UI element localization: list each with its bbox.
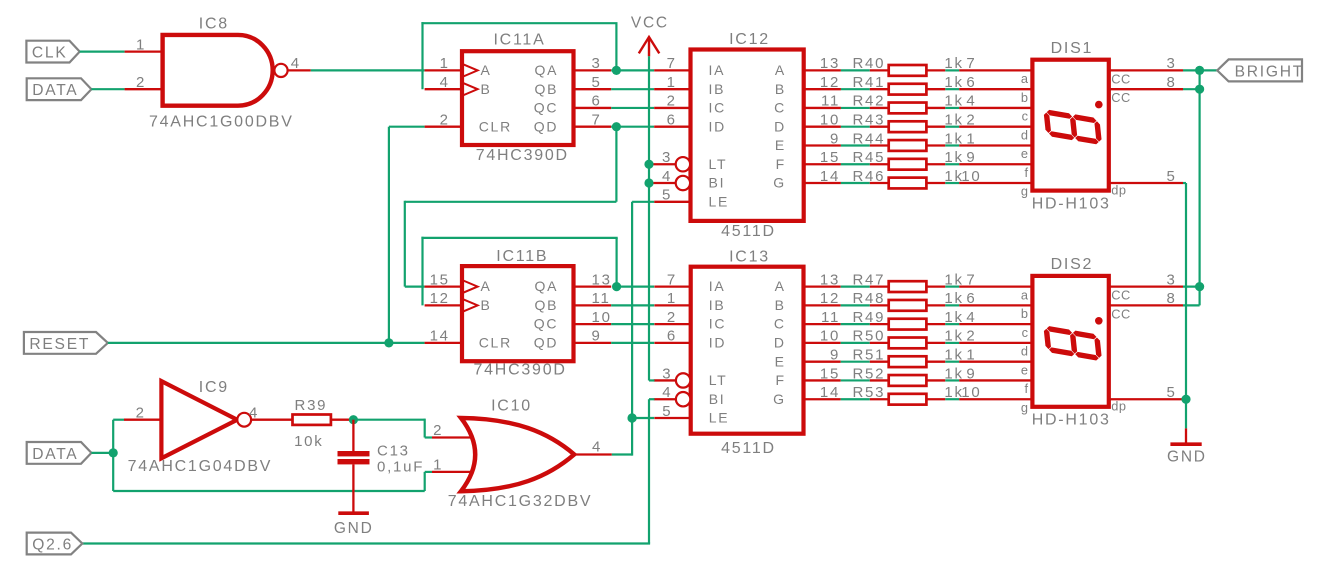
svg-text:1: 1 [966,346,976,363]
svg-text:B: B [775,81,786,97]
wire to display pin 2 [959,126,1032,128]
svg-text:f: f [1024,381,1028,396]
svg-text:7: 7 [966,55,976,72]
resistor R49 [889,319,927,330]
wire to display pin 6 [959,88,1032,90]
svg-text:2: 2 [966,328,976,345]
svg-text:5: 5 [1166,168,1176,185]
svg-text:13: 13 [820,271,840,288]
pin stub IC13 IB [654,304,690,306]
svg-text:9: 9 [830,130,840,147]
resistor R44 right pin [926,144,945,146]
wire R51 net in [841,361,870,363]
wire R42 net in [841,107,870,109]
capacitor C13 bottom lead [352,464,354,511]
svg-text:1: 1 [433,457,443,474]
ic IC11B box [462,266,574,361]
wire R48 net in [841,304,870,306]
pin stub IC11A pin 1 [425,69,462,71]
wire to display pin 9 [959,163,1032,165]
svg-text:2: 2 [440,112,450,129]
wire to display pin 10 [959,398,1032,400]
wire IC11B QD to IC13 ID [611,342,654,344]
svg-text:15: 15 [820,149,840,166]
svg-text:CLR: CLR [479,118,512,134]
svg-text:8: 8 [1166,74,1176,91]
wire R46 net out [945,182,959,184]
pin stub IC13 D [804,342,841,344]
svg-text:10k: 10k [294,433,323,450]
net flag DATA [27,78,92,100]
wire to display pin 10 [959,182,1032,184]
wire R39 to junction [349,419,353,421]
wire R48 net out [945,304,959,306]
svg-text:9: 9 [966,365,976,382]
svg-text:B: B [775,297,786,313]
resistor R50 right pin [926,342,945,344]
wire bend down to pin 2 [424,419,426,438]
resistor R40 left pin [870,69,889,71]
pin stub IC11B pin 12 [425,304,462,306]
wire DATA to junction [91,452,113,454]
wire QA to IC12 IA [611,69,654,71]
svg-text:b: b [1021,90,1029,105]
pin stub IC11B pin 15 [425,285,462,287]
pin stub IC8 pin 4 [288,69,311,71]
svg-text:a: a [1021,71,1029,86]
wire IC13 LT from VCC [649,379,655,381]
svg-text:QB: QB [535,81,559,97]
svg-text:dp: dp [1111,399,1126,414]
svg-text:10: 10 [820,112,840,129]
wire RESET vertical [388,127,390,343]
wire R50 net in [841,342,870,344]
svg-text:LT: LT [709,156,728,172]
svg-text:10: 10 [820,328,840,345]
wire dp vertical [1185,183,1187,428]
svg-text:4: 4 [440,74,450,91]
svg-text:74HC390D: 74HC390D [476,147,569,164]
svg-text:R39: R39 [294,397,327,414]
svg-text:d: d [1021,344,1029,359]
svg-text:RESET: RESET [29,336,90,353]
wire net DATA [91,88,124,90]
resistor R45 [889,159,927,170]
svg-text:A: A [775,278,786,294]
svg-text:e: e [1021,362,1029,377]
svg-text:7: 7 [667,271,677,288]
pin stub IC12 ID [654,126,690,128]
resistor R41 right pin [926,88,945,90]
pin stub IC13 IA [654,285,690,287]
svg-text:1: 1 [440,55,450,72]
pin stub IC13 A [804,285,841,287]
svg-text:C: C [774,316,786,332]
pin stub IC12 B [804,88,841,90]
resistor R47 right pin [926,285,945,287]
svg-text:2: 2 [667,93,677,110]
net flag CLK [26,41,79,63]
svg-text:B: B [481,81,492,97]
svg-text:ID: ID [709,118,727,134]
svg-text:f: f [1024,165,1028,180]
wire R45 net out [945,163,959,165]
svg-text:10: 10 [592,309,612,326]
pin stub IC10 pin 2 [432,436,472,438]
svg-text:HD-H103: HD-H103 [1032,412,1111,429]
clock wedge IC11A A [462,64,478,77]
svg-text:IC12: IC12 [729,31,770,48]
svg-text:CLK: CLK [32,45,68,62]
wire IC11B QA to IC13 IA [617,286,655,288]
svg-text:CC: CC [1111,90,1130,105]
ground symbol (C13) [338,511,369,515]
wire QD down to IC11B A [404,201,406,287]
svg-text:6: 6 [667,328,677,345]
svg-text:IC10: IC10 [491,398,532,415]
pin stub DIS2 CC 3 [1109,285,1183,287]
junction LE at IC13 [628,413,637,422]
resistor R53 right pin [926,398,945,400]
svg-text:7: 7 [966,271,976,288]
svg-text:5: 5 [592,74,602,91]
wire to display pin 7 [959,285,1032,287]
wire to display pin 2 [959,342,1032,344]
pin stub IC12 LE [654,201,690,203]
svg-text:GND: GND [334,520,374,537]
display DIS1 box [1032,60,1108,191]
resistor R48 left pin [870,304,889,306]
wire to display pin 4 [959,323,1032,325]
pin stub IC12 D [804,126,841,128]
svg-text:HD-H103: HD-H103 [1032,196,1111,213]
wire to display pin 1 [959,144,1032,146]
junction QD IC11A [612,122,621,131]
gnd stub (display) [1185,428,1187,443]
decimal point (DIS1) [1095,101,1103,109]
pin stub IC11A pin 2 [425,126,462,128]
decimal point (DIS2) [1095,317,1103,325]
svg-text:g: g [1021,400,1029,415]
wire to display pin 7 [959,69,1032,71]
resistor R43 [889,121,927,132]
resistor R51 right pin [926,361,945,363]
svg-text:A: A [481,62,492,78]
pin stub IC12 A [804,69,841,71]
svg-text:11: 11 [821,93,840,110]
wire into IC10 pin 1 [425,471,432,473]
pin stub DIS1 CC 3 [1109,69,1183,71]
svg-text:D: D [774,335,786,351]
svg-text:D: D [774,118,786,134]
svg-text:4: 4 [966,309,976,326]
wire IC11B QA feedback vertical left [421,237,423,306]
seven segment glyph (DIS1) [1043,109,1102,145]
wire IC8 out to IC11A A [311,69,425,71]
pin stub IC13 IC [654,323,690,325]
pin stub IC12 IA [654,69,690,71]
svg-text:4: 4 [249,404,259,421]
wire R49 net out [945,323,959,325]
resistor R43 right pin [926,126,945,128]
wire to display pin 6 [959,304,1032,306]
ic IC12 box [691,50,804,221]
resistor R53 left pin [870,398,889,400]
wire DIS2 dp [1183,398,1186,400]
pin stub IC11B QD [574,342,612,344]
wire DATA bottom horizontal [113,490,425,492]
pin stub IC12 IB [654,88,690,90]
wire R43 net out [945,126,959,128]
svg-text:IC8: IC8 [199,15,229,32]
junction dp at DIS2 [1181,395,1190,404]
svg-text:4511D: 4511D [721,440,776,457]
svg-text:2: 2 [667,309,677,326]
resistor R42 right pin [926,107,945,109]
pin stub IC10 pin 1 [432,471,472,473]
svg-text:ID: ID [709,335,727,351]
resistor R51 left pin [870,361,889,363]
pin stub DIS2 CC 8 [1109,304,1183,306]
svg-text:6: 6 [966,74,976,91]
svg-text:DIS2: DIS2 [1051,256,1094,273]
output bubble IC8 [274,64,287,77]
svg-text:74AHC1G04DBV: 74AHC1G04DBV [128,458,273,475]
resistor R47 [889,281,927,292]
pin stub IC11B QA [574,285,612,287]
pin stub IC11A QA [574,69,612,71]
svg-text:4511D: 4511D [721,223,776,240]
wire net RESET [108,342,425,344]
resistor R44 [889,140,927,151]
pin stub IC11A QD [574,126,612,128]
wire to display pin 1 [959,361,1032,363]
pin stub IC12 F [804,163,841,165]
svg-text:G: G [773,391,786,407]
wire IC11B QA feedback vertical right [615,238,617,287]
display DIS2 box [1032,276,1108,407]
pin stub IC12 E [804,144,841,146]
wire R52 net out [945,379,959,381]
inverter IC9 [161,381,237,458]
resistor R46 [889,178,927,189]
svg-text:QC: QC [534,316,559,332]
svg-text:6: 6 [592,93,602,110]
wire into IC10 pin 2 [425,436,432,438]
wire BRIGHT vertical [1198,70,1200,305]
svg-text:DATA: DATA [32,446,78,463]
svg-text:BI: BI [709,391,726,407]
wire DIS1 dp [1183,182,1186,184]
resistor R49 left pin [870,323,889,325]
svg-text:BRIGHT: BRIGHT [1235,63,1304,80]
pin stub IC12 LT [654,163,677,165]
pin stub IC13 C [804,323,841,325]
resistor R46 left pin [870,182,889,184]
svg-text:12: 12 [430,290,450,307]
wire LE vertical [631,202,633,456]
svg-text:8: 8 [1166,290,1176,307]
ground symbol (display) [1170,442,1201,446]
pin stub IC13 G [804,398,841,400]
resistor R47 left pin [870,285,889,287]
resistor R44 left pin [870,144,889,146]
pin stub IC8 pin 2 [125,88,162,90]
wire IC11B QC to IC13 IC [611,323,654,325]
wire R50 net out [945,342,959,344]
svg-text:e: e [1021,146,1029,161]
wire QB to IC12 IB [611,88,654,90]
pin stub DIS1 CC 8 [1109,88,1183,90]
pin stub IC11B QB [574,304,612,306]
clock wedge IC11B A [462,280,478,293]
resistor R41 [889,84,927,95]
pin stub IC12 C [804,107,841,109]
wire RESET to IC11A CLR [389,126,425,128]
wire R52 net in [841,379,870,381]
svg-text:IB: IB [709,81,726,97]
svg-text:9: 9 [966,149,976,166]
svg-text:BI: BI [709,175,726,191]
svg-text:5: 5 [1166,384,1176,401]
pin stub IC13 ID [654,342,690,344]
resistor R40 [889,65,927,76]
wire net Q2.6 [82,542,650,544]
junction VCC to IC12 BI [644,178,653,187]
svg-text:2: 2 [433,422,443,439]
wire DIS2 CC8 to BRIGHT vertical [1183,304,1200,306]
svg-text:IC11B: IC11B [496,248,548,265]
pin stub IC13 F [804,379,841,381]
wire to display pin 4 [959,107,1032,109]
svg-text:CC: CC [1111,306,1130,321]
junction RESET [384,338,393,347]
wire VCC vertical [648,56,650,380]
junction QA IC11A [612,66,621,75]
net flag RESET [24,332,108,354]
junction BRIGHT at DIS1 CC3 [1195,66,1204,75]
svg-text:1: 1 [966,130,976,147]
pin stub IC11A pin 4 [425,88,462,90]
svg-text:CC: CC [1111,71,1130,86]
wire DATA to IC9 input [113,419,124,421]
wire R46 net in [841,182,870,184]
svg-text:2: 2 [136,404,146,421]
junction BRIGHT at DIS2 CC3 [1195,282,1204,291]
svg-text:LT: LT [709,372,728,388]
svg-text:DATA: DATA [32,82,78,99]
pin stub IC12 BI [654,182,677,184]
inversion bubble IC13 LT [676,373,690,387]
svg-text:F: F [776,156,786,172]
svg-text:7: 7 [592,112,602,129]
wire R53 net in [841,398,870,400]
pin stub IC10 pin 4 [574,453,612,455]
pin stub IC11B QC [574,323,612,325]
wire IC11B QB to IC13 IB [611,304,654,306]
svg-text:E: E [775,137,786,153]
svg-text:14: 14 [820,384,840,401]
svg-text:G: G [773,175,786,191]
svg-text:QB: QB [535,297,559,313]
svg-text:3: 3 [1166,55,1176,72]
svg-text:d: d [1021,127,1029,142]
seven segment glyph (DIS2) [1043,325,1102,361]
svg-text:3: 3 [1166,271,1176,288]
resistor R39 right pin [331,419,350,421]
clock wedge IC11B B [462,299,478,312]
svg-text:3: 3 [592,55,602,72]
svg-text:g: g [1021,184,1029,199]
svg-text:DIS1: DIS1 [1051,40,1094,57]
svg-text:74HC390D: 74HC390D [474,362,567,379]
svg-text:1: 1 [667,290,677,307]
wire R47 net out [945,286,959,288]
wire R45 net in [841,163,870,165]
wire R43 net in [841,126,870,128]
svg-text:10: 10 [961,168,981,185]
resistor R46 right pin [926,182,945,184]
wire R53 net out [945,398,959,400]
svg-text:14: 14 [430,328,450,345]
svg-text:C13: C13 [377,443,410,460]
wire QD down to row7 [615,127,617,202]
svg-text:IA: IA [709,62,726,78]
svg-text:12: 12 [820,74,840,91]
resistor R52 right pin [926,379,945,381]
svg-text:6: 6 [667,112,677,129]
svg-text:QC: QC [534,100,559,116]
svg-text:4: 4 [291,55,301,72]
svg-text:6: 6 [966,290,976,307]
clock wedge IC11A B [462,83,478,96]
pin stub IC13 BI [654,398,677,400]
svg-text:74AHC1G32DBV: 74AHC1G32DBV [448,493,593,510]
capacitor C13 top lead [352,420,354,452]
svg-text:A: A [775,62,786,78]
svg-text:GND: GND [1167,449,1207,466]
wire junction to IC10 pin 2 bend [353,419,424,421]
svg-text:F: F [775,372,785,388]
wire DIS1 CC3 to BRIGHT [1183,69,1217,71]
pin stub IC8 pin 1 [125,50,162,52]
svg-text:IC13: IC13 [729,249,770,266]
svg-text:QA: QA [535,278,559,294]
junction DATA bottom [109,448,118,457]
wire DIS2 CC3 to BRIGHT vertical [1183,286,1200,288]
svg-text:IC: IC [709,100,727,116]
resistor R48 [889,300,927,311]
svg-text:15: 15 [430,271,450,288]
resistor R48 right pin [926,304,945,306]
svg-text:a: a [1021,287,1029,302]
wire QD horizontal row7 [405,201,617,203]
svg-text:B: B [481,297,492,313]
wire R41 net out [945,88,959,90]
resistor R45 left pin [870,163,889,165]
pin stub IC9 pin 4 [251,419,292,421]
net flag BRIGHT [1217,59,1302,81]
wire DIS1 CC8 to BRIGHT vertical [1183,88,1200,90]
svg-text:c: c [1022,325,1029,340]
svg-text:4: 4 [592,439,602,456]
pin stub IC13 LE [654,417,690,419]
svg-text:c: c [1022,109,1029,124]
resistor R43 left pin [870,126,889,128]
svg-text:2: 2 [966,112,976,129]
resistor R40 right pin [926,69,945,71]
inversion bubble IC12 BI [676,176,690,190]
